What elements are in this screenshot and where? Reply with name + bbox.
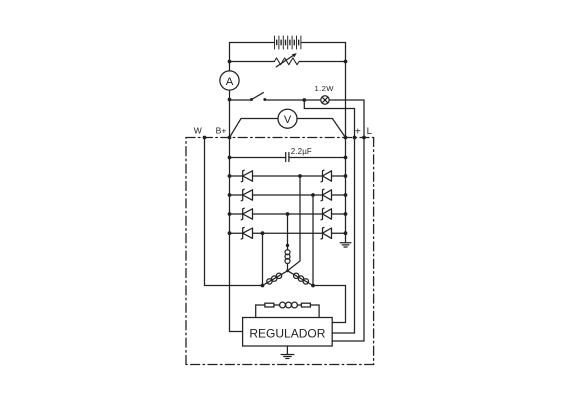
capacitor C1 wires bbox=[230, 157, 346, 159]
node: stator left junction bbox=[261, 284, 265, 288]
junction dots on left bus bbox=[228, 60, 232, 236]
rectifier row 3 wires bbox=[230, 213, 346, 215]
lamp H1 bbox=[321, 96, 329, 104]
regulator box U3 bbox=[243, 318, 333, 347]
terminal L bbox=[362, 126, 372, 139]
battery G1 (6 cells) bbox=[275, 36, 301, 49]
junction dots on right bus bbox=[344, 60, 348, 236]
svg-text:V: V bbox=[284, 114, 292, 126]
rectifier row 2 wires bbox=[230, 194, 346, 196]
rheostat R1 (zigzag with arrow) bbox=[274, 53, 299, 67]
terminal D+ (unlabeled, right bus) bbox=[344, 136, 348, 140]
wire: neutral tap row 1 to star centre bbox=[288, 174, 302, 271]
ground GND2 (regulator) bbox=[281, 346, 294, 359]
rectifier row 1 wires bbox=[230, 175, 346, 177]
svg-text:B+: B+ bbox=[216, 126, 227, 136]
svg-text:2.2µF: 2.2µF bbox=[291, 147, 312, 156]
diode D3 bbox=[241, 208, 252, 220]
wire: switch to lamp bbox=[265, 99, 321, 101]
diode D8 bbox=[321, 227, 332, 239]
switch S1 bbox=[230, 93, 267, 101]
wire: + sense wire from switch junction bbox=[304, 100, 354, 333]
svg-text:A: A bbox=[226, 76, 234, 88]
terminal + bbox=[353, 126, 361, 139]
brush B1 bbox=[265, 303, 274, 307]
capacitor C1 bbox=[286, 153, 289, 162]
wire: L wire down to regulator bbox=[332, 100, 364, 341]
diode D5 bbox=[321, 170, 332, 182]
ammeter U1 bbox=[220, 71, 239, 90]
stator winding L1 (top coil) bbox=[285, 244, 290, 271]
diode D1 bbox=[241, 170, 252, 182]
wire: battery top line bbox=[230, 42, 346, 44]
junction dot at switch/+ node bbox=[302, 98, 306, 102]
brush B2 wire bbox=[310, 305, 319, 318]
wire: right vertical bus (battery corner down to rectifier) bbox=[345, 43, 347, 234]
rectifier row 4 wires bbox=[230, 232, 346, 234]
wire: phase tap row 2 to stator right bbox=[311, 193, 315, 285]
terminal B+ bbox=[216, 126, 232, 140]
brush B1 wire bbox=[256, 305, 265, 318]
wire: left vertical main line (battery/ammeter/B+ bus) bbox=[230, 43, 243, 332]
rotor field coil L4 bbox=[274, 302, 302, 308]
wire: phase tap row 4 to stator left bbox=[261, 231, 265, 285]
node: star centre bbox=[286, 269, 289, 272]
stator winding L3 (right coil) bbox=[288, 271, 314, 286]
ground GND1 (rectifier) bbox=[340, 233, 351, 247]
stator winding L2 (left coil) bbox=[263, 271, 288, 286]
svg-text:L: L bbox=[367, 126, 372, 137]
svg-text:1.2W: 1.2W bbox=[315, 84, 335, 93]
svg-text:+: + bbox=[355, 126, 361, 137]
alternator boundary (dash-dot box) bbox=[186, 138, 374, 365]
wire: lamp to L corner bbox=[329, 99, 364, 101]
diode D7 bbox=[321, 208, 332, 220]
node: stator right junction bbox=[311, 284, 315, 288]
wire: phase tap row 3 to stator top coil bbox=[286, 212, 290, 245]
svg-text:W: W bbox=[194, 126, 202, 136]
brush B2 bbox=[301, 303, 310, 307]
diode D4 bbox=[241, 227, 252, 239]
svg-text:REGULADOR: REGULADOR bbox=[249, 327, 325, 341]
terminal W bbox=[194, 126, 207, 140]
wire: rheostat line bbox=[230, 61, 346, 63]
diode D6 bbox=[321, 189, 332, 201]
diode D2 bbox=[241, 189, 252, 201]
wire: stator right phase to regulator bbox=[313, 286, 346, 323]
wire: W wire down to stator bbox=[205, 138, 263, 286]
voltmeter U2 bbox=[230, 109, 346, 137]
